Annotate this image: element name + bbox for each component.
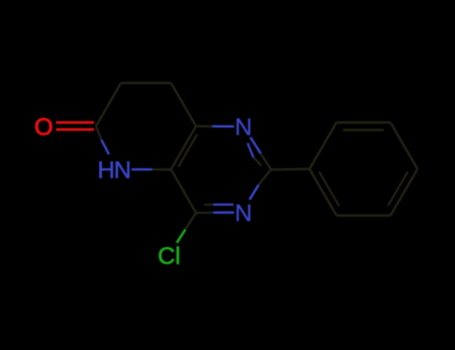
svg-text:N: N xyxy=(235,114,252,141)
pyrimidine: bond N3=C4 inner line (carbon half dark) xyxy=(204,204,213,206)
pyrimidine: bond C8a-N1 (nitrogen half blue) xyxy=(213,125,235,127)
phenyl inner line C2'=C3' xyxy=(343,129,384,131)
pyrimidine: bond C4-C4a xyxy=(171,170,196,213)
svg-text:N: N xyxy=(235,200,252,227)
ring lactam: bond C5-C8a xyxy=(171,83,196,126)
phenyl bond C5'-C6' (bottom edge) xyxy=(337,214,391,216)
phenyl bond C2'-C3' (top edge) xyxy=(337,121,391,123)
bond C7=O double bond (red) xyxy=(56,123,94,130)
phenyl ring outline xyxy=(310,123,418,216)
bond C4-Cl (chlorine half green) xyxy=(177,230,185,243)
svg-text:N: N xyxy=(114,157,131,184)
bond C4-Cl (carbon half dark) xyxy=(185,213,196,230)
svg-text:Cl: Cl xyxy=(158,243,181,270)
phenyl inner line C6'=C1' xyxy=(319,172,339,207)
pyrimidine: bond N3=C4 inner line (blue half) xyxy=(213,203,233,205)
bond N8-C4a (carbon half dark) xyxy=(152,168,171,171)
bond N8-C4a (nitrogen half blue) xyxy=(132,168,153,170)
pyrimidine: bond N1=C2 inner line (carbon half dark) xyxy=(254,158,262,166)
pyrimidine: bond C4a=C8a inner aromatic line xyxy=(178,134,197,167)
pyrimidine: bond C8a-N1 (carbon half dark) xyxy=(196,125,213,128)
svg-text:H: H xyxy=(98,157,115,184)
bond C7-N8 (nitrogen half blue) xyxy=(102,140,110,155)
phenyl aromatic inner lines xyxy=(319,130,408,206)
phenyl bond C4'-C5' xyxy=(391,169,418,216)
pyrimidine: bond N1=C2 main line (blue half) xyxy=(250,137,260,153)
pyrimidine: bond C2-N3 (carbon half dark) xyxy=(259,170,272,186)
bond C2-Cipso (phenyl attachment) xyxy=(271,168,310,171)
pyrimidine: bond N1=C2 main line (carbon half dark) xyxy=(261,153,271,169)
pyrimidine: bond N1=C2 inner line (blue half) xyxy=(248,143,254,158)
ring lactam: bond C6-C5 (top edge) xyxy=(121,82,171,84)
pyrimidine: bond C4a-C8a (fused edge) xyxy=(171,126,196,169)
phenyl bond C3'-C4' xyxy=(391,123,418,170)
phenyl bond C6'-C1' xyxy=(310,169,337,216)
svg-text:O: O xyxy=(34,114,53,141)
pyrimidine: bond C2-N3 (nitrogen half blue) xyxy=(250,185,259,200)
pyrimidine: bond N3=C4 main line (blue half) xyxy=(213,211,234,214)
phenyl bond C1'-C2' xyxy=(310,123,337,170)
bond C7-N8 (amide C-N, carbon half dark) xyxy=(96,126,102,140)
pyrimidine: bond N3=C4 main line (carbon half dark) xyxy=(196,211,213,214)
phenyl inner line C4'=C5' xyxy=(388,172,408,207)
ring lactam: bond C7-C6 xyxy=(96,83,121,126)
